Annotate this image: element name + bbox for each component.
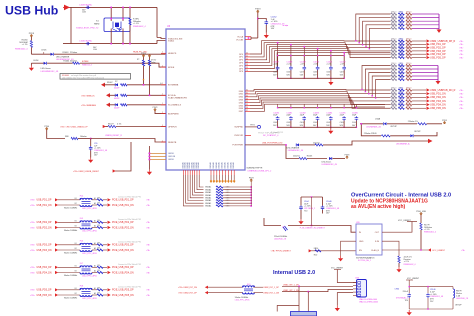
row EXTMEM: flag + diode [101, 83, 105, 87]
power P3V3 led [30, 35, 33, 38]
svg-text:R91 0: R91 0 [406, 74, 411, 76]
svg-text:B2: B2 [75, 226, 77, 228]
svg-text:C0G: C0G [93, 49, 97, 51]
svg-text:FB90: FB90 [399, 39, 403, 41]
wire groupA purple drop [438, 14, 440, 30]
svg-text:LEDNNNONC_4S: LEDNNNONC_4S [322, 164, 338, 166]
svg-text:5ohm: 5ohm [151, 62, 156, 64]
svg-text:A1: A1 [94, 197, 96, 200]
svg-text:R1063: R1063 [63, 52, 70, 54]
svg-text:R91 0: R91 0 [406, 15, 411, 17]
svg-text:<7B>: <7B> [459, 56, 463, 59]
svg-text:<7B>: <7B> [30, 249, 36, 252]
svg-text:LEDNNNNK_4S: LEDNNNNK_4S [366, 127, 381, 129]
svg-text:UWBHUB3_EUSB_DP1_2: UWBHUB3_EUSB_DP1_2 [248, 171, 273, 173]
svg-text:FB90: FB90 [399, 102, 403, 104]
svg-text:B2: B2 [75, 271, 77, 273]
svg-text:FL7: FL7 [80, 263, 84, 265]
svg-text:R91 0: R91 0 [406, 102, 411, 104]
svg-text:P3V3: P3V3 [249, 177, 254, 179]
svg-text:USB2_USBHUB_DN_R: USB2_USBHUB_DN_R [430, 89, 456, 92]
net flag PCIE_USB_PD5 [108, 288, 111, 291]
svg-text:USB_PD2_DP: USB_PD2_DP [37, 222, 52, 224]
svg-text:P3V3: P3V3 [345, 154, 350, 156]
wire crystal stubs [110, 7, 112, 21]
svg-text:as AVL(EN active high): as AVL(EN active high) [351, 204, 406, 210]
capacitor C55 [90, 139, 92, 147]
svg-text:50V: 50V [313, 74, 317, 76]
svg-text:LED4: LED4 [33, 60, 39, 62]
svg-text:P3V3: P3V3 [29, 33, 35, 35]
svg-text:FB90: FB90 [399, 63, 403, 65]
svg-text:<7B>: <7B> [146, 289, 150, 292]
svg-text:R90 0: R90 0 [391, 67, 396, 69]
svg-text:GNDA1: GNDA1 [205, 191, 211, 194]
svg-text:NMHz: NMHz [94, 24, 100, 26]
svg-text:+/-5%: +/-5% [273, 64, 278, 66]
svg-text:R90 0: R90 0 [391, 74, 396, 76]
svg-text:<7B>: <7B> [461, 249, 465, 252]
svg-text:FB90: FB90 [399, 77, 403, 79]
svg-text:25V: 25V [430, 301, 434, 303]
svg-text:22: 22 [246, 58, 248, 60]
svg-text:<7B>: <7B> [146, 204, 150, 207]
svg-text:R90 0: R90 0 [391, 23, 396, 25]
svg-text:A2: A2 [94, 270, 96, 273]
svg-text:<7B>: <7B> [30, 289, 36, 292]
svg-text:50V: 50V [273, 125, 277, 127]
svg-text:33: 33 [246, 98, 248, 100]
svg-text:USB_PD4_DN: USB_PD4_DN [430, 104, 446, 107]
svg-text:<7B>: <7B> [459, 50, 463, 53]
svg-text:A1: A1 [94, 287, 96, 290]
net flag XTAL left arrow [64, 5, 70, 11]
svg-text:37: 37 [246, 110, 248, 112]
svg-text:R91 0: R91 0 [406, 52, 411, 54]
svg-text:P_IN_USBINT_IN_USBEXT: P_IN_USBINT_IN_USBEXT [300, 228, 326, 230]
svg-text:50V: 50V [300, 125, 304, 127]
svg-text:0402F: 0402F [114, 88, 120, 90]
svg-text:+/- 1%: +/- 1% [133, 23, 139, 25]
wire groupC purple drop [437, 66, 439, 82]
svg-text:PCIE_USB_PD5_DP: PCIE_USB_PD5_DP [112, 290, 134, 292]
svg-text:L612_PPC_4P05: L612_PPC_4P05 [82, 253, 97, 255]
svg-text:R91 0: R91 0 [406, 67, 411, 69]
svg-text:B1: B1 [75, 220, 77, 222]
svg-text:<7B> USB2_INT_DN: <7B> USB2_INT_DN [178, 286, 197, 289]
svg-text:<7B>: <7B> [459, 43, 463, 46]
svg-text:USB_PD5_DP: USB_PD5_DP [37, 290, 52, 292]
svg-text:FL4: FL4 [80, 195, 84, 197]
svg-text:R91 0: R91 0 [406, 26, 411, 28]
svg-text:L0402N10_2S: L0402N10_2S [456, 298, 469, 300]
ground capbank1 [330, 78, 332, 80]
svg-text:P3V4: P3V4 [44, 126, 49, 128]
svg-text:<7B>: <7B> [146, 294, 150, 297]
group C resistor/bead rows [361, 63, 438, 98]
svg-text:C934: C934 [394, 289, 399, 291]
svg-text:<7B>: <7B> [146, 249, 150, 252]
svg-text:R68: R68 [65, 136, 68, 138]
svg-text:GNDA1: GNDA1 [205, 188, 211, 191]
IC bottom pin names [181, 161, 235, 175]
svg-text:FB90: FB90 [399, 67, 403, 69]
svg-text:R91 0: R91 0 [406, 49, 411, 51]
svg-text:FB90: FB90 [399, 52, 403, 54]
svg-text:L612_PPC_4P05: L612_PPC_4P05 [82, 298, 97, 300]
svg-text:LEDSNNNONC_4S: LEDSNNNONC_4S [41, 71, 59, 73]
svg-text:220ohm R1109: 220ohm R1109 [364, 133, 377, 135]
svg-text:26: 26 [246, 70, 248, 72]
svg-text:GNDD: GNDD [168, 153, 175, 155]
svg-text:PCIE_USB_PD1_DN: PCIE_USB_PD1_DN [112, 205, 134, 207]
svg-text:FB90: FB90 [399, 74, 403, 76]
svg-text:TP74: TP74 [250, 124, 255, 126]
svg-text:<7B>: <7B> [146, 221, 150, 224]
svg-text:R91 0: R91 0 [406, 39, 411, 41]
ground bulk [408, 310, 410, 312]
svg-text:<7B>: <7B> [459, 96, 463, 99]
svg-text:PORTPWR: PORTPWR [232, 145, 243, 147]
svg-text:30: 30 [246, 90, 248, 92]
svg-text:R90 0: R90 0 [391, 12, 396, 14]
svg-text:BUSPWRB: BUSPWRB [168, 113, 179, 115]
svg-text:<7B>: <7B> [459, 40, 463, 43]
svg-text:GNDA1: GNDA1 [205, 197, 211, 200]
svg-text:1: 1 [162, 140, 163, 142]
svg-text:ILIM: ILIM [375, 241, 379, 243]
svg-text:R90 0: R90 0 [391, 52, 396, 54]
capacitor C1052 [265, 20, 269, 25]
svg-text:<7B>: <7B> [30, 271, 36, 274]
svg-text:XTAL2: XTAL2 [168, 39, 175, 42]
svg-text:<7B> SMBCLK: <7B> SMBCLK [81, 95, 95, 98]
svg-text:Connect to PCIe Slot x4 P91: Connect to PCIe Slot x4 P91 [118, 263, 141, 266]
wire crystal loop [68, 6, 157, 8]
svg-text:L612_PPC_4P05: L612_PPC_4P05 [82, 231, 97, 233]
svg-text:OVRCUR: OVRCUR [234, 135, 244, 137]
svg-text:R91 0: R91 0 [406, 63, 411, 65]
svg-text:1: 1 [162, 112, 163, 114]
svg-text:R91 0: R91 0 [406, 12, 411, 14]
svg-text:GNDD: GNDD [168, 159, 175, 161]
svg-text:USB_PORTPWR_LED: USB_PORTPWR_LED [262, 142, 283, 144]
svg-text:GNDA1: GNDA1 [205, 202, 211, 205]
svg-text:FB90: FB90 [399, 23, 403, 25]
svg-text:<7B>: <7B> [459, 53, 463, 56]
svg-text:USB_PD2_DN: USB_PD2_DN [37, 227, 52, 229]
svg-text:FB90: FB90 [399, 55, 403, 57]
ground C55 [90, 151, 92, 158]
ground capbank2 [330, 127, 332, 128]
inductor L6 [264, 218, 281, 226]
svg-text:XSM-8_8X3T_PH2_T2: XSM-8_8X3T_PH2_T2 [76, 27, 99, 29]
svg-text:Connect to PCIe Slot x4 P91: Connect to PCIe Slot x4 P91 [118, 218, 141, 221]
svg-text:GNDA1: GNDA1 [205, 205, 211, 208]
svg-text:C1060 8p/NC: C1060 8p/NC [79, 41, 93, 43]
svg-text:USB2_INT_1_DP: USB2_INT_1_DP [283, 284, 299, 286]
svg-text:50V: 50V [313, 125, 317, 127]
svg-text:WALIC4-07896-04005: WALIC4-07896-04005 [359, 301, 378, 304]
LED LED4 [31, 62, 43, 64]
capacitor C1059 [86, 6, 90, 9]
svg-text:Internal USB 2.0: Internal USB 2.0 [273, 270, 315, 276]
svg-text:R90 0: R90 0 [391, 95, 396, 97]
svg-text:<7B> USB2_INT_DP: <7B> USB2_INT_DP [178, 291, 197, 294]
svg-text:+/- 1%: +/- 1% [404, 261, 410, 263]
svg-text:SCL/SMBCLK: SCL/SMBCLK [168, 105, 182, 107]
svg-text:LED-Green: LED-Green [41, 68, 51, 70]
ground C1052 [265, 25, 267, 33]
svg-text:0402F: 0402F [114, 108, 120, 110]
svg-text:R90 0: R90 0 [391, 45, 396, 47]
svg-text:R91 0: R91 0 [406, 42, 411, 44]
svg-text:31: 31 [246, 93, 248, 95]
svg-text:<7B>: <7B> [459, 107, 463, 110]
svg-text:FB90: FB90 [399, 99, 403, 101]
svg-text:PCIE_USB_PD2_DN: PCIE_USB_PD2_DN [112, 227, 134, 229]
svg-text:R90 0: R90 0 [391, 42, 396, 44]
capacitor C1060 [86, 42, 90, 45]
svg-text:L612_PPC_4P05: L612_PPC_4P05 [235, 300, 250, 302]
svg-text:A2: A2 [94, 292, 96, 295]
svg-text:RSMD0402_4: RSMD0402_4 [15, 49, 28, 51]
power P3V3 vcc [257, 10, 260, 13]
wire U20 out [382, 222, 412, 233]
svg-text:USB2_INT_1_DP: USB2_INT_1_DP [263, 287, 279, 289]
svg-text:90ohm 100MHz: 90ohm 100MHz [235, 297, 248, 299]
svg-text:RESETB: RESETB [168, 142, 177, 144]
wire RN nest bundle [183, 175, 203, 206]
svg-text:FB90: FB90 [399, 12, 403, 14]
svg-text:+/-5%: +/-5% [313, 64, 318, 66]
svg-text:<7B>: <7B> [146, 244, 150, 247]
svg-text:<7B>: <7B> [30, 294, 36, 297]
svg-text:USB_PD1_DP: USB_PD1_DP [37, 200, 52, 202]
svg-text:<7B>: <7B> [30, 266, 36, 269]
svg-text:A2: A2 [94, 225, 96, 228]
svg-text:R91 0: R91 0 [406, 95, 411, 97]
svg-text:L612_PPC_4P05: L612_PPC_4P05 [82, 208, 97, 210]
svg-text:PCIE_USB_PD1_DP: PCIE_USB_PD1_DP [112, 200, 134, 202]
svg-text:X1: X1 [96, 21, 99, 23]
svg-text:PCIE_USB_PD3_DP: PCIE_USB_PD3_DP [112, 245, 134, 247]
svg-text:P3V3: P3V3 [442, 120, 447, 122]
svg-text:35: 35 [246, 104, 248, 106]
svg-text:220uH 100MHz: 220uH 100MHz [274, 236, 287, 238]
svg-text:0402F: 0402F [114, 98, 120, 100]
power BUSPWR [154, 109, 157, 112]
pullup resistors pair [142, 55, 145, 58]
svg-text:1: 1 [162, 65, 163, 67]
svg-text:R90 0: R90 0 [391, 19, 396, 21]
svg-text:<7B>: <7B> [459, 89, 463, 92]
capacitor C940 [427, 287, 429, 293]
svg-text:USB2_INT_1_DN: USB2_INT_1_DN [263, 292, 279, 294]
svg-text:R10: R10 [314, 254, 317, 256]
svg-text:B1: B1 [75, 198, 77, 200]
svg-text:UPSPUR: UPSPUR [168, 126, 177, 128]
svg-text:C0G: C0G [300, 72, 304, 74]
svg-text:B1: B1 [75, 265, 77, 267]
LED LED5 [31, 53, 50, 55]
svg-text:Connect to PCIe Slot x4 P91: Connect to PCIe Slot x4 P91 [118, 196, 141, 199]
svg-text:USB_PD5_DN: USB_PD5_DN [430, 107, 446, 110]
svg-text:21: 21 [246, 56, 248, 58]
svg-text:GNDA1: GNDA1 [205, 186, 211, 189]
no-connect stubs group2 [210, 175, 236, 183]
svg-text:16V: 16V [326, 213, 330, 215]
svg-text:MODE: MODE [168, 67, 175, 69]
svg-text:USB_PD3_DN: USB_PD3_DN [430, 100, 446, 103]
ground GNDD [148, 170, 150, 172]
svg-text:P3V3: P3V3 [255, 9, 261, 11]
LED row C portpwr [245, 144, 286, 146]
svg-text:FB90: FB90 [399, 19, 403, 21]
IC right pins lower bus [239, 90, 250, 114]
svg-text:R90 0: R90 0 [391, 39, 396, 41]
svg-text:FB90: FB90 [399, 70, 403, 72]
IC left pin stubs [161, 52, 166, 143]
svg-text:A1: A1 [94, 242, 96, 245]
svg-text:16V: 16V [94, 155, 98, 157]
resistor R1M parallel [129, 7, 131, 18]
svg-text:FB90: FB90 [399, 49, 403, 51]
svg-text:+/- 1%: +/- 1% [22, 44, 28, 46]
svg-text:R91 0: R91 0 [406, 106, 411, 108]
svg-text:PCIE_USB_PD2_DP: PCIE_USB_PD2_DP [112, 222, 134, 224]
svg-text:T50: T50 [304, 210, 307, 212]
svg-text:220ohm: 220ohm [293, 156, 300, 158]
svg-text:A2: A2 [94, 247, 96, 250]
svg-text:<7B>: <7B> [459, 46, 463, 49]
svg-text:USB2_INT_1_DN: USB2_INT_1_DN [283, 290, 299, 292]
svg-text:GNDA1: GNDA1 [205, 194, 211, 197]
note box [60, 74, 131, 80]
svg-text:USB_PD4_DN: USB_PD4_DN [37, 272, 52, 274]
svg-text:<7B>: <7B> [30, 204, 36, 207]
ground conn [337, 293, 353, 306]
svg-text:36: 36 [246, 107, 248, 109]
svg-text:90ohm 100MHz: 90ohm 100MHz [64, 208, 77, 210]
svg-text:24: 24 [246, 64, 248, 66]
svg-text:FB90: FB90 [399, 95, 403, 97]
svg-text:R91 0: R91 0 [406, 91, 411, 93]
svg-text:10kohm: 10kohm [80, 136, 87, 138]
wire bulk rails [408, 298, 410, 309]
svg-text:C1059 8p/NC: C1059 8p/NC [79, 4, 93, 6]
svg-text:R90 0: R90 0 [391, 63, 396, 65]
svg-text:U13A: U13A [375, 118, 381, 121]
capacitor bank 2 [273, 104, 359, 128]
svg-text:GNDA1: GNDA1 [205, 199, 211, 202]
svg-text:R91 0: R91 0 [406, 55, 411, 57]
inductor FB bulk [452, 287, 454, 289]
svg-text:C0G: C0G [340, 72, 344, 74]
svg-text:50V: 50V [340, 74, 344, 76]
svg-text:GNDA1: GNDA1 [209, 161, 212, 169]
svg-text:90ohm 100MHz: 90ohm 100MHz [64, 298, 77, 300]
svg-text:B2: B2 [75, 248, 77, 250]
svg-text:FB90: FB90 [399, 15, 403, 17]
svg-text:50V: 50V [326, 74, 330, 76]
IC right pin stubs VCC [245, 36, 251, 38]
svg-text:E786M: E786M [82, 61, 89, 63]
svg-text:<7B> USB2_USB1B_RESET: <7B> USB2_USB1B_RESET [73, 170, 100, 173]
ground U20 [341, 241, 356, 256]
wire upper bus nest [250, 41, 391, 72]
svg-text:GNDA1: GNDA1 [229, 161, 232, 169]
group D resistor/bead rows with flags [391, 88, 463, 110]
crystal X1 [104, 18, 130, 32]
svg-text:R1077: R1077 [108, 123, 114, 125]
svg-text:<7B>: <7B> [146, 226, 150, 229]
svg-text:FL5: FL5 [80, 218, 84, 220]
svg-text:OCC_USBINT: OCC_USBINT [432, 250, 446, 252]
net flag PCIE_USB_PD1 [108, 198, 111, 201]
svg-text:GND: GND [359, 241, 364, 243]
svg-text:FB90: FB90 [399, 45, 403, 47]
resistor R1060 [30, 37, 32, 41]
net flag PCIE_USB_PD2 [108, 221, 111, 224]
svg-text:◄◄ ▶: ◄◄ ▶ [282, 24, 289, 27]
svg-text:USB_PD5_DP: USB_PD5_DP [430, 56, 446, 59]
svg-text:C0G: C0G [286, 72, 290, 74]
svg-text:R6M163_4: R6M163_4 [82, 65, 93, 67]
svg-text:GND1B: GND1B [168, 156, 176, 158]
LED row B right [361, 124, 381, 136]
svg-text:USB2B_RESET_R: USB2B_RESET_R [105, 135, 122, 137]
svg-text:LED5: LED5 [41, 50, 47, 52]
svg-text:P3V3: P3V3 [153, 107, 158, 109]
svg-text:LED-ORANGE: LED-ORANGE [56, 56, 70, 59]
svg-text:<7B> <7B> USB2_USB1B_OP: <7B> <7B> USB2_USB1B_OP [60, 125, 88, 128]
net flag PCIE_USB_PD3 [108, 243, 111, 246]
svg-text:FB90: FB90 [399, 42, 403, 44]
svg-text:R90 0: R90 0 [391, 26, 396, 28]
svg-text:R90 0: R90 0 [391, 106, 396, 108]
svg-text:1: 1 [162, 103, 163, 105]
svg-text:R90 0: R90 0 [391, 15, 396, 17]
svg-text:220ohm 5%: 220ohm 5% [408, 121, 418, 123]
svg-text:+/-5%: +/-5% [340, 64, 345, 66]
svg-text:PCIE_USB_PD4_DN: PCIE_USB_PD4_DN [112, 272, 134, 274]
group A resistor/bead rows [355, 12, 439, 50]
svg-text:A2: A2 [94, 202, 96, 205]
svg-text:C0G: C0G [326, 72, 330, 74]
wire lower bus [250, 90, 391, 112]
svg-text:GNDA1: GNDA1 [232, 161, 235, 169]
svg-text:A1: A1 [94, 264, 96, 267]
svg-text:PCIE_USB_PD5_DN: PCIE_USB_PD5_DN [112, 295, 134, 297]
svg-text:32: 32 [246, 95, 248, 97]
svg-text:T6V: T6V [405, 300, 409, 302]
svg-text:RSMD0402_4: RSMD0402_4 [404, 264, 416, 266]
svg-text:<7B>: <7B> [30, 221, 36, 224]
svg-text:GNDA1: GNDA1 [224, 161, 227, 169]
svg-text:PCIE_USB_PD3_DN: PCIE_USB_PD3_DN [112, 250, 134, 252]
svg-text:R?: R? [137, 59, 139, 61]
svg-text:23: 23 [246, 61, 248, 63]
svg-text:OETUP: OETUP [390, 126, 397, 128]
svg-text:20: 20 [246, 53, 248, 55]
svg-text:Connect to PCIe Slot x4 P91: Connect to PCIe Slot x4 P91 [118, 286, 141, 289]
svg-text:FL8: FL8 [80, 285, 84, 287]
svg-text:GNDA1: GNDA1 [212, 161, 215, 169]
svg-text:USB_PD3_DN: USB_PD3_DN [37, 250, 52, 252]
svg-text:R90 0: R90 0 [391, 70, 396, 72]
svg-text:GNDA1: GNDA1 [218, 161, 221, 169]
